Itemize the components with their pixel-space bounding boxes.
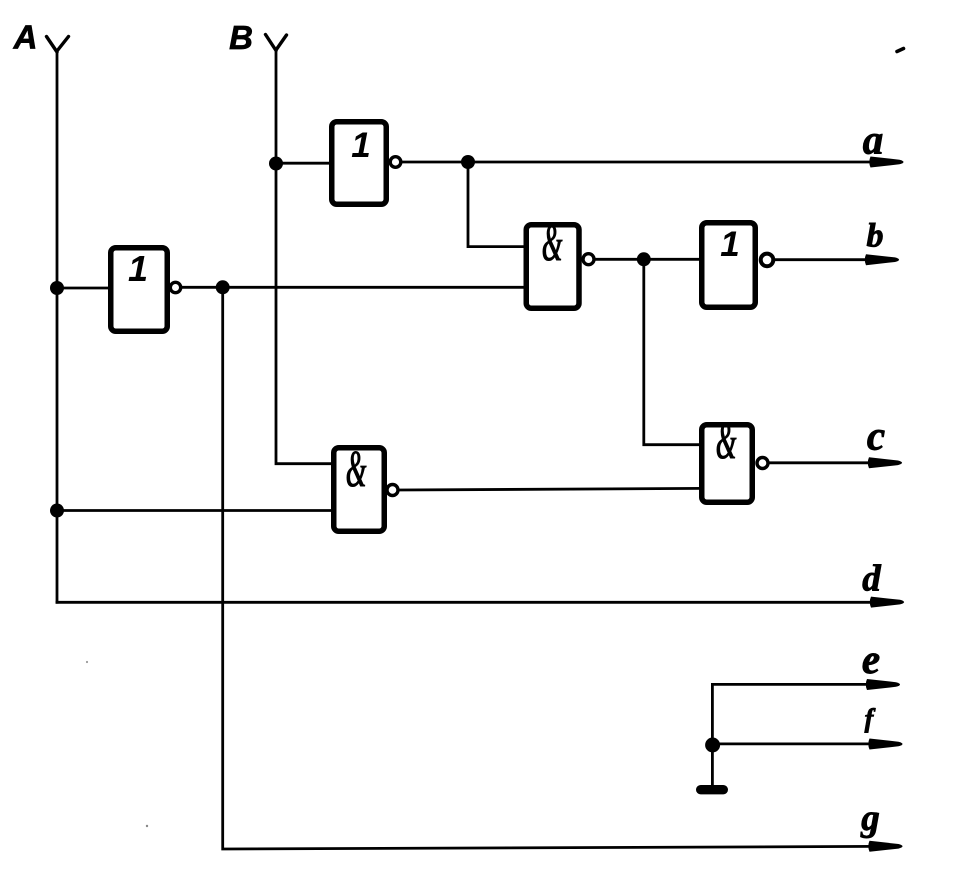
wire U2 output to arrow a	[401, 161, 876, 164]
node U1-output to g	[216, 280, 230, 294]
node b-line to U5	[637, 252, 651, 266]
svg-text:A: A	[13, 19, 38, 56]
input A antenna	[47, 37, 69, 53]
svg-text:e: e	[862, 636, 880, 682]
arrowhead f	[868, 739, 902, 750]
input B antenna	[266, 35, 287, 51]
svg-text:B: B	[229, 19, 253, 56]
arrowhead c	[868, 457, 902, 468]
svg-text:d: d	[862, 559, 881, 600]
node a-line to U3	[461, 155, 475, 169]
svg-text:1: 1	[128, 248, 148, 289]
arrowhead b	[865, 254, 899, 265]
bubble U4 output	[761, 254, 774, 267]
wire U6 output to U5 lower input	[398, 488, 703, 490]
wire g vertical and horizontal	[223, 287, 876, 849]
svg-text:1: 1	[351, 126, 370, 165]
inverter U2 (top, label 1)	[332, 122, 387, 205]
and gate U6 (lower left, label &)	[334, 441, 385, 531]
arrowhead a	[869, 157, 903, 168]
bubble U5 output	[757, 458, 768, 469]
wire U3 output to U4 input	[594, 258, 703, 261]
wire f to arrow	[712, 743, 874, 746]
node on A to AND U6	[50, 504, 64, 518]
wire U4 output to arrow b	[774, 258, 873, 261]
and gate U5 (right, label &)	[702, 413, 753, 502]
svg-text:&: &	[542, 215, 563, 273]
inverter U4 (right, label 1)	[702, 223, 756, 308]
stray ink tick top right	[897, 49, 904, 52]
svg-text:a: a	[863, 117, 884, 163]
svg-text:g: g	[860, 798, 880, 839]
wire B to U2 input	[276, 162, 332, 165]
and gate U3 (middle, label &)	[526, 215, 579, 308]
wire U1 output to U3 lower input	[181, 286, 527, 289]
bubble U6 output	[387, 485, 398, 496]
svg-text:&: &	[346, 441, 367, 499]
bubble U2 output	[390, 157, 401, 168]
inverter U1 (left, label 1)	[111, 248, 168, 332]
wire node down to U5 top input	[644, 259, 703, 444]
wire U5 output to arrow c	[768, 461, 874, 464]
wire A to U1 input	[57, 287, 112, 290]
svg-text:&: &	[716, 413, 737, 471]
arrowhead d	[870, 597, 904, 608]
speck left	[86, 661, 88, 663]
svg-text:1: 1	[720, 225, 739, 264]
node on B to inverter U2	[269, 157, 283, 171]
svg-text:c: c	[867, 413, 885, 459]
wire e from stub to arrow	[712, 684, 872, 786]
node e/f stub	[705, 738, 720, 753]
arrowhead g	[868, 841, 902, 852]
wire A vertical	[56, 51, 59, 604]
wire B vertical to U6 top input	[276, 50, 334, 464]
bubble U3 output	[583, 254, 594, 265]
ground symbol	[696, 785, 728, 794]
wire A to U6 lower input	[57, 509, 334, 512]
node on A to inverter U1	[50, 281, 64, 295]
arrowhead e	[866, 679, 900, 690]
speck lower	[146, 825, 148, 827]
wire node down to U3 top input	[468, 162, 527, 247]
wire output d horizontal	[56, 601, 876, 604]
svg-text:b: b	[867, 218, 884, 255]
bubble U1 output	[170, 282, 180, 292]
